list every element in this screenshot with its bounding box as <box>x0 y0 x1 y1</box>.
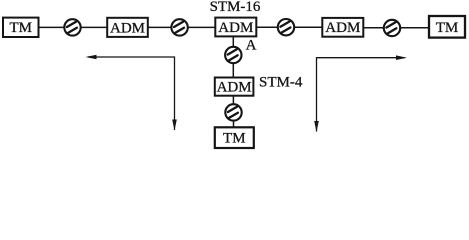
wire <box>232 63 234 77</box>
ADM U1 <box>107 18 148 37</box>
svg-text:TM: TM <box>223 131 246 147</box>
wire <box>363 27 384 29</box>
regenerator R4 <box>384 20 400 36</box>
wire <box>256 26 278 28</box>
ADM U4 <box>215 78 254 96</box>
regenerator R3 <box>278 19 294 35</box>
svg-text:ADM: ADM <box>217 80 252 96</box>
svg-text:ADM: ADM <box>325 20 360 36</box>
ADM U3 <box>322 18 363 37</box>
terminal multiplexer TM3 <box>215 127 254 148</box>
wire <box>294 26 322 28</box>
svg-text:STM-16: STM-16 <box>210 0 261 15</box>
terminal multiplexer TM1 <box>3 18 39 37</box>
regenerator R1 <box>64 19 80 35</box>
wire <box>39 26 65 28</box>
svg-text:TM: TM <box>436 20 459 36</box>
wire <box>400 27 429 29</box>
terminal multiplexer TM2 <box>429 16 465 38</box>
svg-text:ADM: ADM <box>218 20 253 36</box>
wire <box>232 96 234 105</box>
wire <box>233 121 235 128</box>
wire <box>148 26 172 28</box>
regenerator R6 <box>225 104 241 120</box>
wire <box>232 36 234 47</box>
wire <box>188 26 215 28</box>
svg-text:TM: TM <box>9 20 32 36</box>
arrow west (left drop direction) <box>86 55 177 131</box>
regenerator R5 <box>225 47 241 63</box>
svg-text:A: A <box>246 37 257 53</box>
regenerator R2 <box>171 19 187 35</box>
arrow east (right drop direction) <box>314 55 407 132</box>
svg-text:ADM: ADM <box>110 20 145 36</box>
wire <box>81 26 107 28</box>
ADM U2 <box>215 18 256 37</box>
svg-text:STM-4: STM-4 <box>259 75 303 91</box>
